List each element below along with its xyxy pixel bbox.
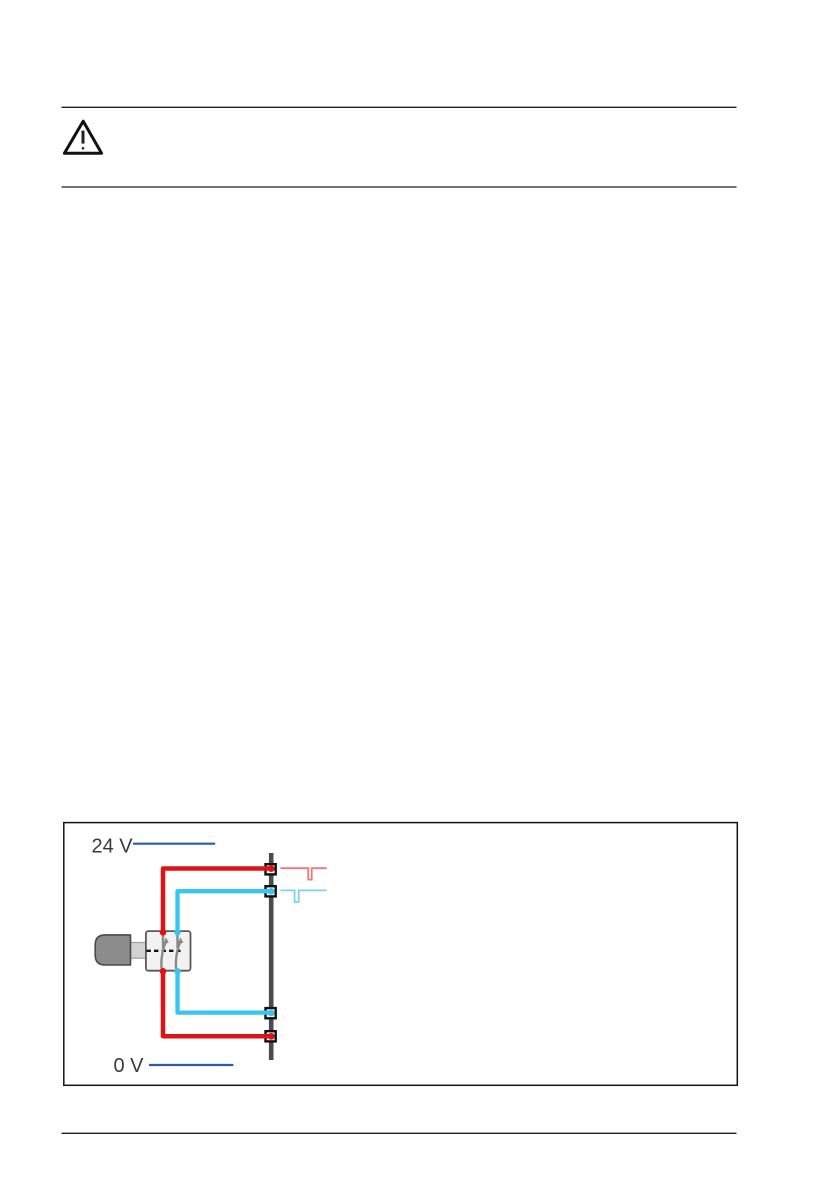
terminal dot red bottom <box>268 1033 275 1040</box>
red test-pulse waveform <box>280 868 326 879</box>
connection dot cyan bottom <box>174 968 180 974</box>
terminal square 1 frame (red, top) <box>266 864 276 874</box>
red wire (OSSD1 loop) <box>163 869 271 1037</box>
contact stub 1 <box>162 933 164 949</box>
mechanical linkage dashed line <box>147 950 181 952</box>
figure frame box <box>64 823 738 1086</box>
terminal square 3 frame (cyan, lower) <box>266 1008 276 1018</box>
cyan test-pulse waveform <box>280 890 326 902</box>
bottom rule line <box>62 1132 737 1134</box>
second rule line <box>62 186 737 188</box>
terminal square 4 frame (red, bottom) <box>266 1031 276 1041</box>
0V rail line <box>149 1064 233 1066</box>
svg-text:24 V: 24 V <box>92 835 134 857</box>
top rule line <box>62 106 737 108</box>
switch actuator knob <box>95 935 130 965</box>
terminal square 2 frame (cyan) <box>266 886 276 896</box>
switch body S1 <box>146 931 191 971</box>
contact stub 2 <box>176 933 178 949</box>
switch actuator stem <box>129 943 147 959</box>
warning triangle icon <box>64 121 101 153</box>
contact blade 2 with arrow <box>176 937 183 968</box>
24V rail line <box>133 843 215 845</box>
terminal dot cyan 2 <box>268 888 275 895</box>
svg-text:0 V: 0 V <box>114 1055 145 1077</box>
connection dot red top <box>160 929 167 936</box>
connection dot red bottom <box>160 968 167 975</box>
cyan wire (OSSD2 loop) <box>178 891 271 1012</box>
contact blade 1 with arrow <box>161 937 168 968</box>
terminal dot cyan 3 <box>268 1010 275 1017</box>
terminal dot red top <box>268 865 275 872</box>
input bus vertical line <box>269 853 274 1060</box>
connection dot cyan top <box>174 929 180 935</box>
